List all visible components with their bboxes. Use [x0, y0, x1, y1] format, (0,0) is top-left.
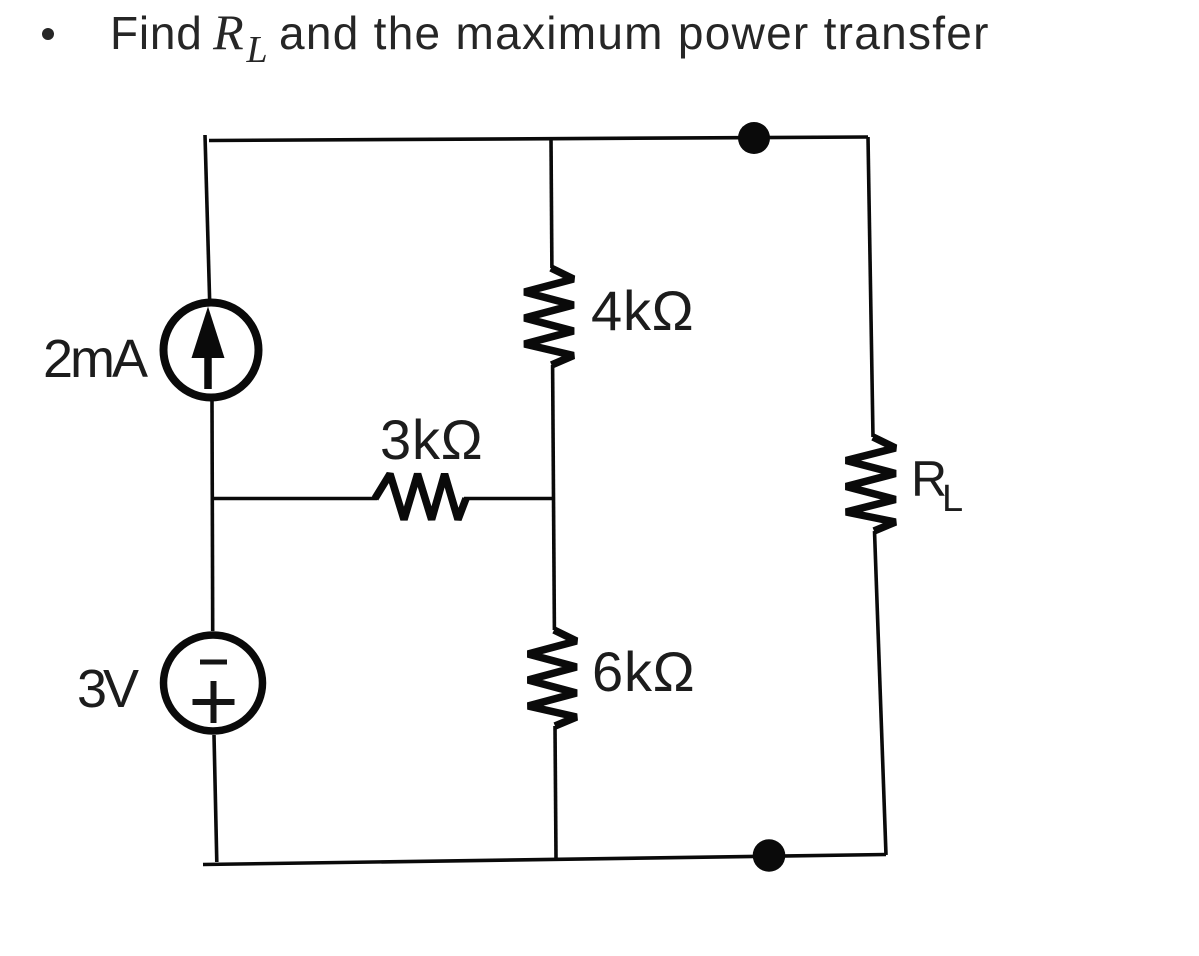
svg-text:4kΩ: 4kΩ [591, 279, 694, 342]
svg-text:6kΩ: 6kΩ [592, 640, 695, 703]
svg-text:2mA: 2mA [43, 329, 148, 389]
svg-text:3kΩ: 3kΩ [380, 408, 483, 471]
svg-text:3V: 3V [77, 659, 139, 719]
svg-text:L: L [942, 478, 963, 520]
